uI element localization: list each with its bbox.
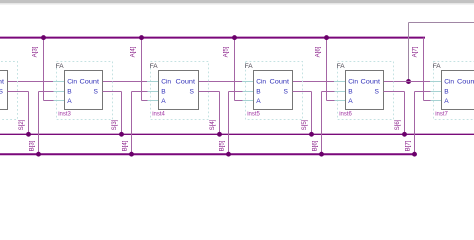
svg-text:inst4: inst4 [152,112,165,118]
svg-text:A: A [348,98,353,105]
wire S-output S[3] [103,92,124,137]
svg-text:Count: Count [176,78,196,85]
wire S-output S[2] [8,92,31,137]
wire A-input tap A[6] [324,35,334,100]
svg-text:B[7]: B[7] [405,140,412,151]
full-adder FA inst3 [53,62,113,120]
svg-text:Count: Count [270,78,290,85]
svg-text:inst6: inst6 [339,112,352,118]
svg-text:S[4]: S[4] [209,119,216,130]
svg-text:inst7: inst7 [435,112,448,118]
wire carry inst2.Cout to inst3.Cin [8,81,54,83]
wire A-input tap A[7] [424,38,431,101]
full-adder FA inst2 [0,62,18,120]
svg-text:FA: FA [337,63,346,70]
wire S-output S[4] [199,92,222,137]
svg-text:S: S [374,89,379,96]
wire carry inst5.Cout to inst6.Cin [293,81,335,83]
svg-text:A: A [256,98,261,105]
svg-text:A: A [161,98,166,105]
svg-text:FA: FA [245,63,254,70]
svg-text:A: A [444,98,449,105]
full-adder FA inst4 [147,62,209,120]
wire B-input tap B[5] [226,92,242,157]
wire sum collector line (bottom thin) [0,133,474,135]
svg-text:A[6]: A[6] [315,46,322,57]
svg-text:S: S [93,89,98,96]
svg-text:B[3]: B[3] [29,140,36,151]
wire B-input tap B[6] [319,92,334,157]
wire carry-out vertical riser x=409 [408,23,410,82]
svg-text:S[6]: S[6] [394,119,401,130]
wire carry inst4.Cout to inst5.Cin [199,81,243,83]
svg-text:S[5]: S[5] [301,119,308,130]
svg-text:Count: Count [457,78,474,85]
svg-text:A[3]: A[3] [32,46,39,57]
wire carry-out net to top-right edge [409,22,474,24]
svg-text:Cin: Cin [348,78,358,85]
svg-text:Count: Count [80,78,100,85]
svg-text:Cin: Cin [256,78,266,85]
svg-text:B[5]: B[5] [219,140,226,151]
svg-text:inst3: inst3 [58,112,71,118]
svg-text:Count: Count [0,78,4,85]
svg-text:S: S [283,89,288,96]
junction carry net / riser [406,79,411,84]
svg-text:inst5: inst5 [247,112,260,118]
wire A-input tap A[5] [232,35,242,100]
svg-text:Count: Count [361,78,381,85]
wire S-output S[5] [293,92,314,137]
wire A-input tap A[4] [139,35,147,100]
svg-text:B: B [161,89,166,96]
full-adder FA inst7 [430,62,474,120]
wire carry inst3.Cout to inst4.Cin [103,81,148,83]
full-adder FA inst5 [242,62,303,120]
svg-text:S[2]: S[2] [18,119,25,130]
bus A[7..3] (top horizontal bus) [0,37,425,39]
wire A-input tap A[3] [41,35,53,100]
svg-text:A[7]: A[7] [412,46,419,57]
svg-text:B: B [256,89,261,96]
top toolbar edge bar [0,0,474,3]
svg-text:B[4]: B[4] [122,140,129,151]
wire B-input tap B[3] [36,92,53,157]
wire S-output S[6] [384,92,407,137]
wire B-input tap B[7] [412,92,430,157]
svg-text:B: B [348,89,353,96]
svg-text:A[5]: A[5] [223,46,230,57]
svg-text:A: A [67,98,72,105]
wire B-input tap B[4] [129,92,147,157]
svg-text:B: B [444,89,449,96]
full-adder FA inst6 [334,62,394,120]
svg-text:A[4]: A[4] [130,46,137,57]
bus B[7..3] (bottom horizontal bus) [0,153,416,155]
wire carry inst6.Cout to inst7.Cin [384,81,431,83]
svg-text:B[6]: B[6] [312,140,319,151]
svg-text:S[3]: S[3] [111,119,118,130]
svg-text:FA: FA [150,63,159,70]
svg-text:B: B [67,89,72,96]
svg-text:FA: FA [56,63,65,70]
svg-text:Cin: Cin [161,78,171,85]
svg-text:FA: FA [433,63,442,70]
svg-text:S: S [189,89,194,96]
svg-text:Cin: Cin [67,78,77,85]
svg-text:Cin: Cin [444,78,454,85]
